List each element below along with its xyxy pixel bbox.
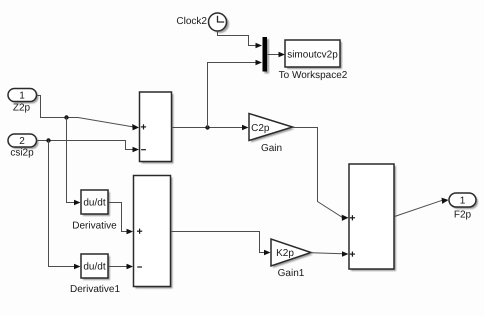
to-workspace block simoutcv2p: [285, 40, 342, 69]
wire Sum2 output to output port F2p: [395, 198, 449, 217]
derivative block Derivative1: [81, 254, 110, 280]
sum block Sum3: [134, 176, 173, 289]
wire junction to Mux input 2: [208, 60, 263, 128]
svg-text:Gain: Gain: [261, 143, 282, 154]
svg-text:1: 1: [19, 91, 25, 102]
svg-text:2: 2: [19, 136, 25, 147]
svg-text:Clock2: Clock2: [176, 16, 207, 27]
wire Gain C2p output to Sum2 first plus input: [293, 128, 349, 221]
label Derivative1: [70, 284, 120, 295]
derivative block Derivative: [81, 190, 110, 216]
svg-text:Gain1: Gain1: [278, 268, 305, 279]
wire Derivative output to Sum3 plus input: [109, 203, 134, 235]
label Gain1: [278, 268, 305, 279]
wire Clock2 to Mux input 1: [218, 31, 263, 48]
mux Mux: [263, 37, 270, 74]
svg-text:Z2p: Z2p: [13, 102, 31, 113]
svg-text:C2p: C2p: [251, 123, 270, 134]
output port 1 (F2p): [449, 193, 478, 209]
wire Gain1 K2p output to Sum2 second plus input: [311, 251, 349, 257]
svg-text:du/dt: du/dt: [83, 198, 105, 209]
svg-text:K2p: K2p: [276, 248, 294, 259]
wire junction down to Derivative input: [67, 118, 81, 206]
gain C2p: [249, 114, 295, 143]
label Clock2: [176, 16, 207, 27]
wire Mux output to To Workspace2: [268, 52, 286, 58]
label Z2p: [13, 102, 31, 113]
svg-text:To Workspace2: To Workspace2: [279, 70, 348, 81]
wire Derivative1 output to Sum3 minus input: [109, 264, 134, 270]
label csi2p: [10, 148, 34, 159]
junction node on Z2p wire: [64, 115, 68, 119]
sum block Sum2: [349, 164, 396, 271]
input port 2 (csi2p): [8, 134, 39, 149]
junction node on csi2p wire: [46, 138, 50, 142]
svg-text:simoutcv2p: simoutcv2p: [287, 50, 338, 61]
wire port1 Z2p to Sum1 plus input: [37, 96, 140, 131]
sum block Sum1: [140, 92, 174, 164]
wire junction down to Derivative1 input: [49, 141, 81, 270]
svg-text:1: 1: [460, 196, 466, 207]
wire port2 csi2p to Sum1 minus input: [37, 141, 140, 153]
svg-text:F2p: F2p: [454, 210, 472, 221]
wire Sum3 output to Gain1 K2p: [171, 232, 271, 256]
label Derivative: [72, 221, 117, 232]
junction node at Sum1 output: [205, 125, 209, 129]
label Gain: [261, 143, 282, 154]
label To Workspace2: [279, 70, 348, 81]
input port 1 (Z2p): [8, 89, 39, 104]
wire Sum1 output to Gain C2p: [172, 125, 249, 131]
svg-text:du/dt: du/dt: [83, 262, 105, 273]
svg-text:Derivative1: Derivative1: [70, 284, 120, 295]
clock Clock2: [209, 13, 230, 33]
svg-text:Derivative: Derivative: [72, 221, 117, 232]
label F2p: [454, 210, 472, 221]
gain K2p: [271, 239, 313, 268]
svg-text:csi2p: csi2p: [10, 148, 34, 159]
